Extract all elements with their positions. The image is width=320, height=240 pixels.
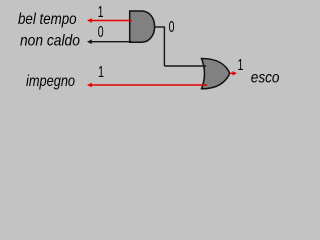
svg-text:0: 0 [98,23,104,41]
label esco [251,70,280,87]
svg-text:non caldo: non caldo [20,32,80,50]
svg-text:esco: esco [251,70,280,87]
wire to OR top input [164,65,206,67]
wire bel tempo input (red) [87,18,132,23]
value 1 on impegno input [98,63,104,81]
wire OR output (red) [230,71,237,75]
value 0 on non caldo input [98,23,104,41]
svg-text:1: 1 [98,3,104,21]
value 1 on bel tempo input [98,3,104,21]
svg-text:1: 1 [98,63,104,81]
wire vertical segment [163,27,165,66]
value 0 on AND output [169,18,175,36]
svg-text:1: 1 [237,56,243,74]
wire impegno input (red) [87,83,207,88]
label impegno [26,73,75,91]
svg-text:impegno: impegno [26,73,75,91]
OR gate U2 [202,59,230,89]
wire non caldo input (black) [87,39,132,44]
value 1 on OR output [237,56,243,74]
label non caldo [20,32,80,50]
label bel tempo [18,11,77,28]
svg-text:bel tempo: bel tempo [18,11,77,28]
svg-text:0: 0 [169,18,175,36]
wire AND output [155,26,165,28]
AND gate U1 [130,11,155,42]
